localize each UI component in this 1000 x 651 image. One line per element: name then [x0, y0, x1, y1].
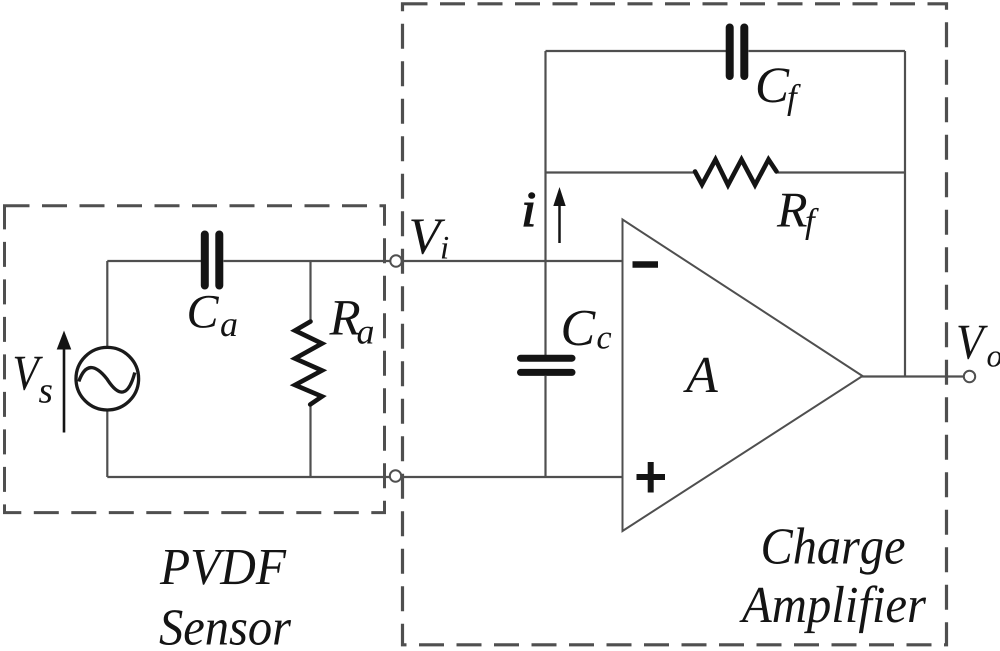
op-amp plus input symbol — [637, 462, 666, 493]
label Cc — [563, 311, 595, 346]
wire: source bottom lead — [106, 411, 108, 478]
op-amp gain label A — [683, 358, 718, 392]
label Vi — [411, 220, 445, 255]
wire: feedback right vertical — [904, 51, 906, 377]
wire: source top lead — [106, 261, 108, 347]
wire: Rf branch left — [546, 171, 696, 173]
caption Charge — [763, 527, 904, 574]
wire: summing node vertical upper (to Cc top plate) — [544, 51, 546, 355]
wire: Rf branch right — [778, 171, 905, 173]
output terminal circle Vo — [964, 371, 975, 382]
capacitor Cc plates — [521, 358, 573, 372]
label Ra — [329, 301, 360, 334]
capacitor Cf plates — [730, 28, 745, 77]
wire: Ra top lead — [309, 261, 311, 322]
capacitor Ca plates — [205, 235, 220, 286]
voltage source sine wave — [79, 368, 135, 392]
current arrow — [558, 204, 561, 243]
resistor Rf zigzag — [695, 160, 777, 186]
node Vi terminal circle (top) — [390, 255, 401, 266]
wire: Ra bottom lead — [309, 404, 311, 477]
caption Amplifier — [739, 585, 926, 633]
wire: summing node vertical lower (Cc bottom plate to bottom rail) — [544, 376, 546, 477]
op-amp U1 triangle — [623, 220, 863, 532]
wire: Cf branch left — [546, 50, 727, 52]
label Cf — [758, 68, 790, 102]
label Vs — [15, 357, 43, 391]
PVDF Sensor dashed box — [5, 206, 385, 513]
wire: Cf branch right — [749, 50, 906, 52]
caption Sensor — [160, 610, 292, 645]
caption PVDF — [160, 550, 287, 585]
Charge Amplifier dashed box — [403, 4, 947, 645]
Vs polarity arrow — [63, 348, 66, 433]
label Rf — [777, 194, 807, 227]
wire: output — [862, 375, 969, 377]
resistor Ra zigzag — [295, 322, 322, 405]
label Ca — [189, 296, 219, 328]
wire: top rail left of Ca — [107, 260, 201, 262]
label Vo — [958, 326, 987, 360]
op-amp minus input symbol — [633, 261, 659, 268]
wire: top rail Ca to op-amp minus input (node Vi) — [224, 260, 624, 262]
current label i — [524, 193, 535, 226]
voltage source Vs circle — [76, 347, 139, 410]
terminal circle (bottom) — [390, 470, 401, 481]
wire: bottom rail to op-amp plus input — [107, 476, 623, 478]
